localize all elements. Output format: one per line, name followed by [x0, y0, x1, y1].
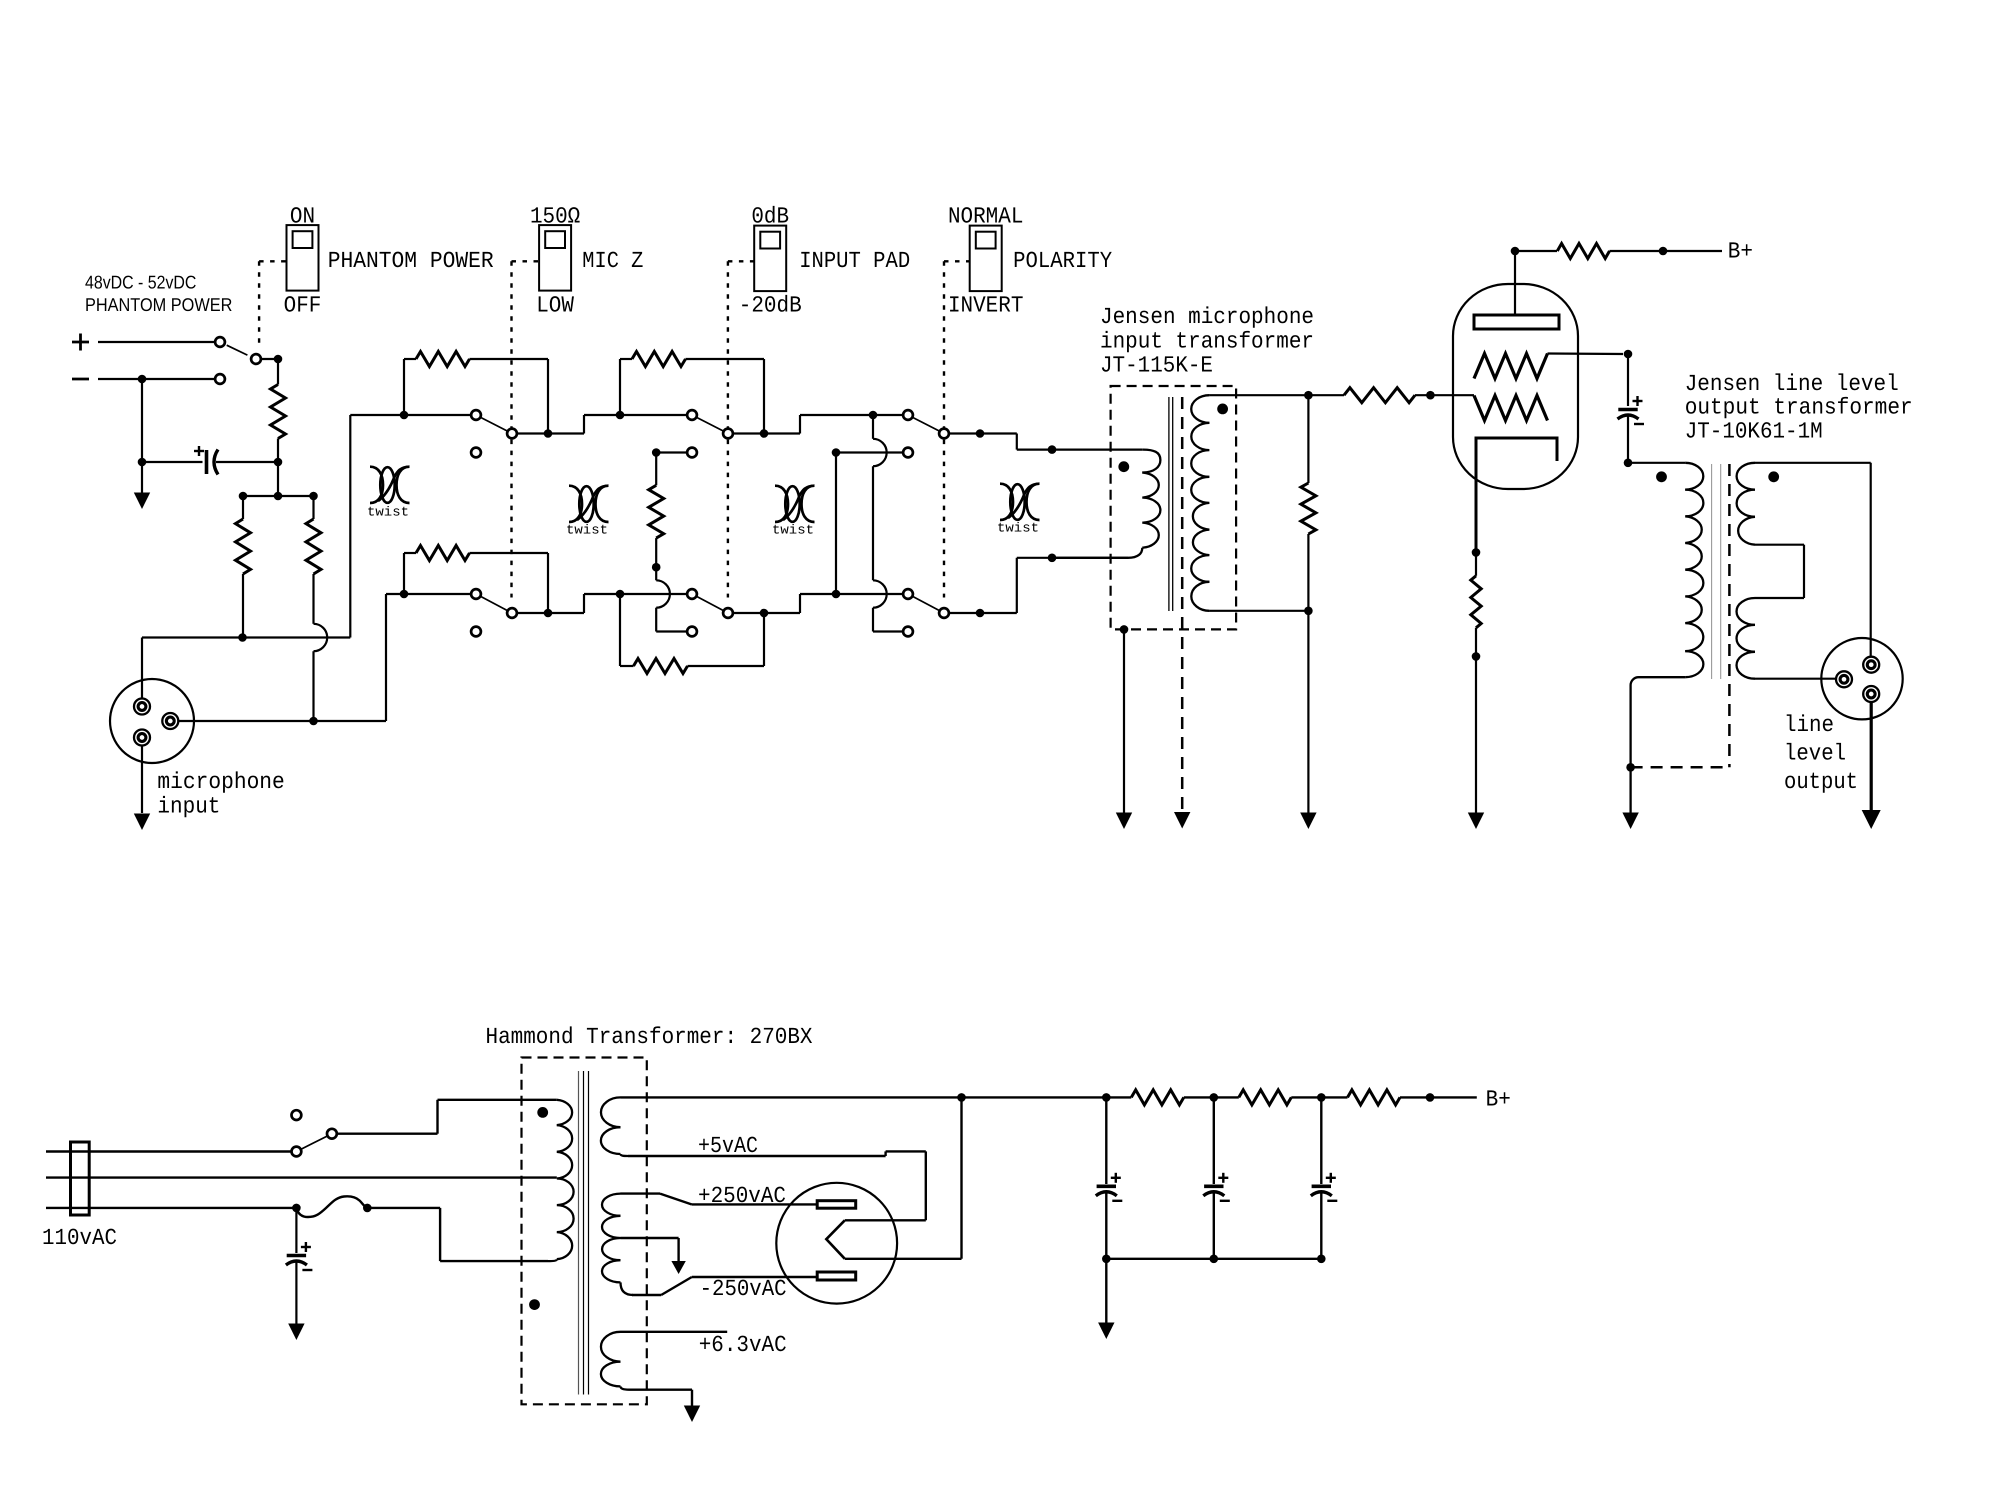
svg-text:+250vAC: +250vAC — [698, 1183, 786, 1209]
svg-text:OFF: OFF — [284, 293, 322, 319]
svg-text:microphone: microphone — [157, 769, 284, 795]
svg-text:twist: twist — [566, 523, 608, 538]
svg-text:-20dB: -20dB — [739, 293, 802, 319]
svg-text:input: input — [157, 794, 220, 820]
svg-text:twist: twist — [772, 523, 814, 538]
svg-text:Hammond Transformer: 270BX: Hammond Transformer: 270BX — [486, 1024, 813, 1050]
svg-text:output transformer: output transformer — [1685, 395, 1913, 421]
svg-text:PHANTOM POWER: PHANTOM POWER — [328, 248, 494, 274]
svg-text:level: level — [1784, 741, 1846, 767]
svg-text:INVERT: INVERT — [948, 293, 1024, 319]
svg-text:-250vAC: -250vAC — [700, 1276, 787, 1302]
svg-text:JT-10K61-1M: JT-10K61-1M — [1685, 419, 1823, 445]
svg-text:input transformer: input transformer — [1100, 329, 1314, 355]
svg-text:NORMAL: NORMAL — [948, 203, 1024, 229]
svg-text:B+: B+ — [1728, 239, 1753, 265]
svg-text:+6.3vAC: +6.3vAC — [699, 1332, 787, 1358]
svg-text:0dB: 0dB — [751, 203, 789, 229]
svg-text:LOW: LOW — [536, 293, 574, 319]
svg-text:150Ω: 150Ω — [530, 203, 580, 229]
svg-text:JT-115K-E: JT-115K-E — [1100, 353, 1213, 379]
svg-text:twist: twist — [367, 505, 409, 520]
svg-text:+5vAC: +5vAC — [698, 1133, 758, 1159]
svg-text:PHANTOM POWER: PHANTOM POWER — [85, 294, 232, 315]
svg-text:110vAC: 110vAC — [42, 1225, 117, 1251]
svg-text:POLARITY: POLARITY — [1013, 248, 1112, 274]
svg-text:Jensen line level: Jensen line level — [1685, 371, 1899, 397]
svg-text:ON: ON — [290, 203, 315, 229]
svg-text:twist: twist — [997, 521, 1039, 536]
svg-text:INPUT PAD: INPUT PAD — [799, 248, 910, 274]
svg-text:output: output — [1784, 769, 1858, 795]
svg-text:line: line — [1784, 712, 1834, 738]
svg-text:MIC Z: MIC Z — [582, 248, 643, 274]
svg-text:B+: B+ — [1486, 1087, 1511, 1113]
svg-text:48vDC - 52vDC: 48vDC - 52vDC — [85, 272, 196, 293]
svg-text:Jensen microphone: Jensen microphone — [1100, 304, 1314, 330]
